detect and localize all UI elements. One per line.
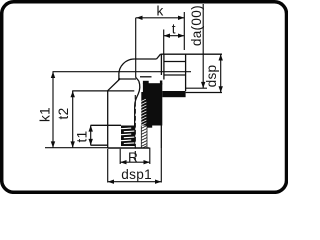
shoulder step black xyxy=(160,81,162,85)
svg-text:t2: t2 xyxy=(56,108,71,120)
dsp1 arrow right xyxy=(155,180,161,184)
thread bore right line xyxy=(134,106,136,146)
dim t line xyxy=(164,35,185,37)
da arrow down xyxy=(201,82,205,88)
right outer wall lower xyxy=(160,126,162,149)
thread coil symbol xyxy=(121,126,134,147)
black arm bottom extension xyxy=(186,92,222,94)
svg-text:dsp: dsp xyxy=(204,65,219,88)
bore bottom under bend xyxy=(118,78,136,80)
k1 arrow up xyxy=(51,72,55,78)
svg-text:k1: k1 xyxy=(37,107,52,122)
dim dsp1 right extension xyxy=(160,148,162,183)
left outer wall xyxy=(107,91,109,148)
black body section: vertical bar xyxy=(143,81,186,128)
svg-text:k: k xyxy=(156,3,163,18)
dim R left extension xyxy=(119,149,121,164)
t2 arrow up xyxy=(71,91,75,97)
svg-text:t1: t1 xyxy=(75,131,90,143)
border frame xyxy=(2,2,287,193)
dim t left extension xyxy=(163,30,165,55)
socket bore top xyxy=(164,61,186,63)
t1 arrow up xyxy=(89,125,93,131)
arc lower stub xyxy=(118,75,120,79)
dsp arrow up xyxy=(219,54,223,60)
hatch strip lower (black lines on white) xyxy=(141,126,147,149)
dim k line xyxy=(136,17,185,19)
elbow outer arc xyxy=(119,59,135,75)
mouth bottom face xyxy=(108,147,150,149)
hatch strip upper (white lines on black) xyxy=(141,92,147,126)
socket shoulder vertical 2 xyxy=(163,55,165,80)
chamfer neck-to-socket xyxy=(157,54,161,59)
dim k right extension xyxy=(183,12,185,50)
svg-text:t: t xyxy=(172,21,176,36)
arrows xyxy=(51,16,223,184)
R arrow left xyxy=(120,160,126,164)
t1 arrow down xyxy=(89,139,93,145)
dsp arrow down xyxy=(219,86,223,92)
bottom face extension to right xyxy=(186,87,208,89)
centerline horizontal (right branch axis) xyxy=(53,71,192,73)
thread top line xyxy=(91,124,122,126)
k arrow right xyxy=(178,16,184,20)
dim dsp line xyxy=(220,54,222,92)
dim k1 line xyxy=(52,72,54,148)
dim dsp1 line xyxy=(108,181,162,183)
svg-text:da(00): da(00) xyxy=(189,5,204,46)
neck bottom segment xyxy=(140,76,152,78)
svg-text:R: R xyxy=(128,150,138,165)
body chamfer diagonal xyxy=(108,79,120,91)
black body section: horizontal arm xyxy=(162,91,185,97)
k arrow left xyxy=(136,16,142,20)
socket inner step xyxy=(164,74,186,76)
thread bottom extension xyxy=(91,144,108,146)
socket shoulder vertical 1 xyxy=(160,55,162,76)
bar top-left nub xyxy=(143,81,149,84)
t arrow right xyxy=(178,34,184,38)
svg-text:dsp1: dsp1 xyxy=(121,167,152,182)
k1 arrow down xyxy=(51,141,55,147)
inner bend diagonal xyxy=(136,77,139,81)
dim t1 line xyxy=(90,125,92,145)
socket end face xyxy=(185,54,187,91)
dim da line xyxy=(202,4,204,88)
collar top face xyxy=(72,90,134,92)
t2 arrow down xyxy=(71,141,75,147)
R arrow right xyxy=(144,160,150,164)
bar bottom step nub xyxy=(147,126,152,128)
centerline vertical (branch axis) xyxy=(53,18,192,160)
t arrow left xyxy=(164,34,170,38)
arc lower stub corner xyxy=(118,77,121,80)
neck top line xyxy=(134,58,156,60)
dim t2 line xyxy=(72,91,74,148)
dim R line xyxy=(120,161,150,163)
bottom extension line for k1 t2 xyxy=(45,147,108,149)
insert dome curve xyxy=(135,81,140,106)
dsp1 arrow left xyxy=(108,180,114,184)
dim R right extension xyxy=(149,148,151,164)
socket top line xyxy=(161,53,223,55)
dim dsp1 left extension xyxy=(107,149,109,183)
